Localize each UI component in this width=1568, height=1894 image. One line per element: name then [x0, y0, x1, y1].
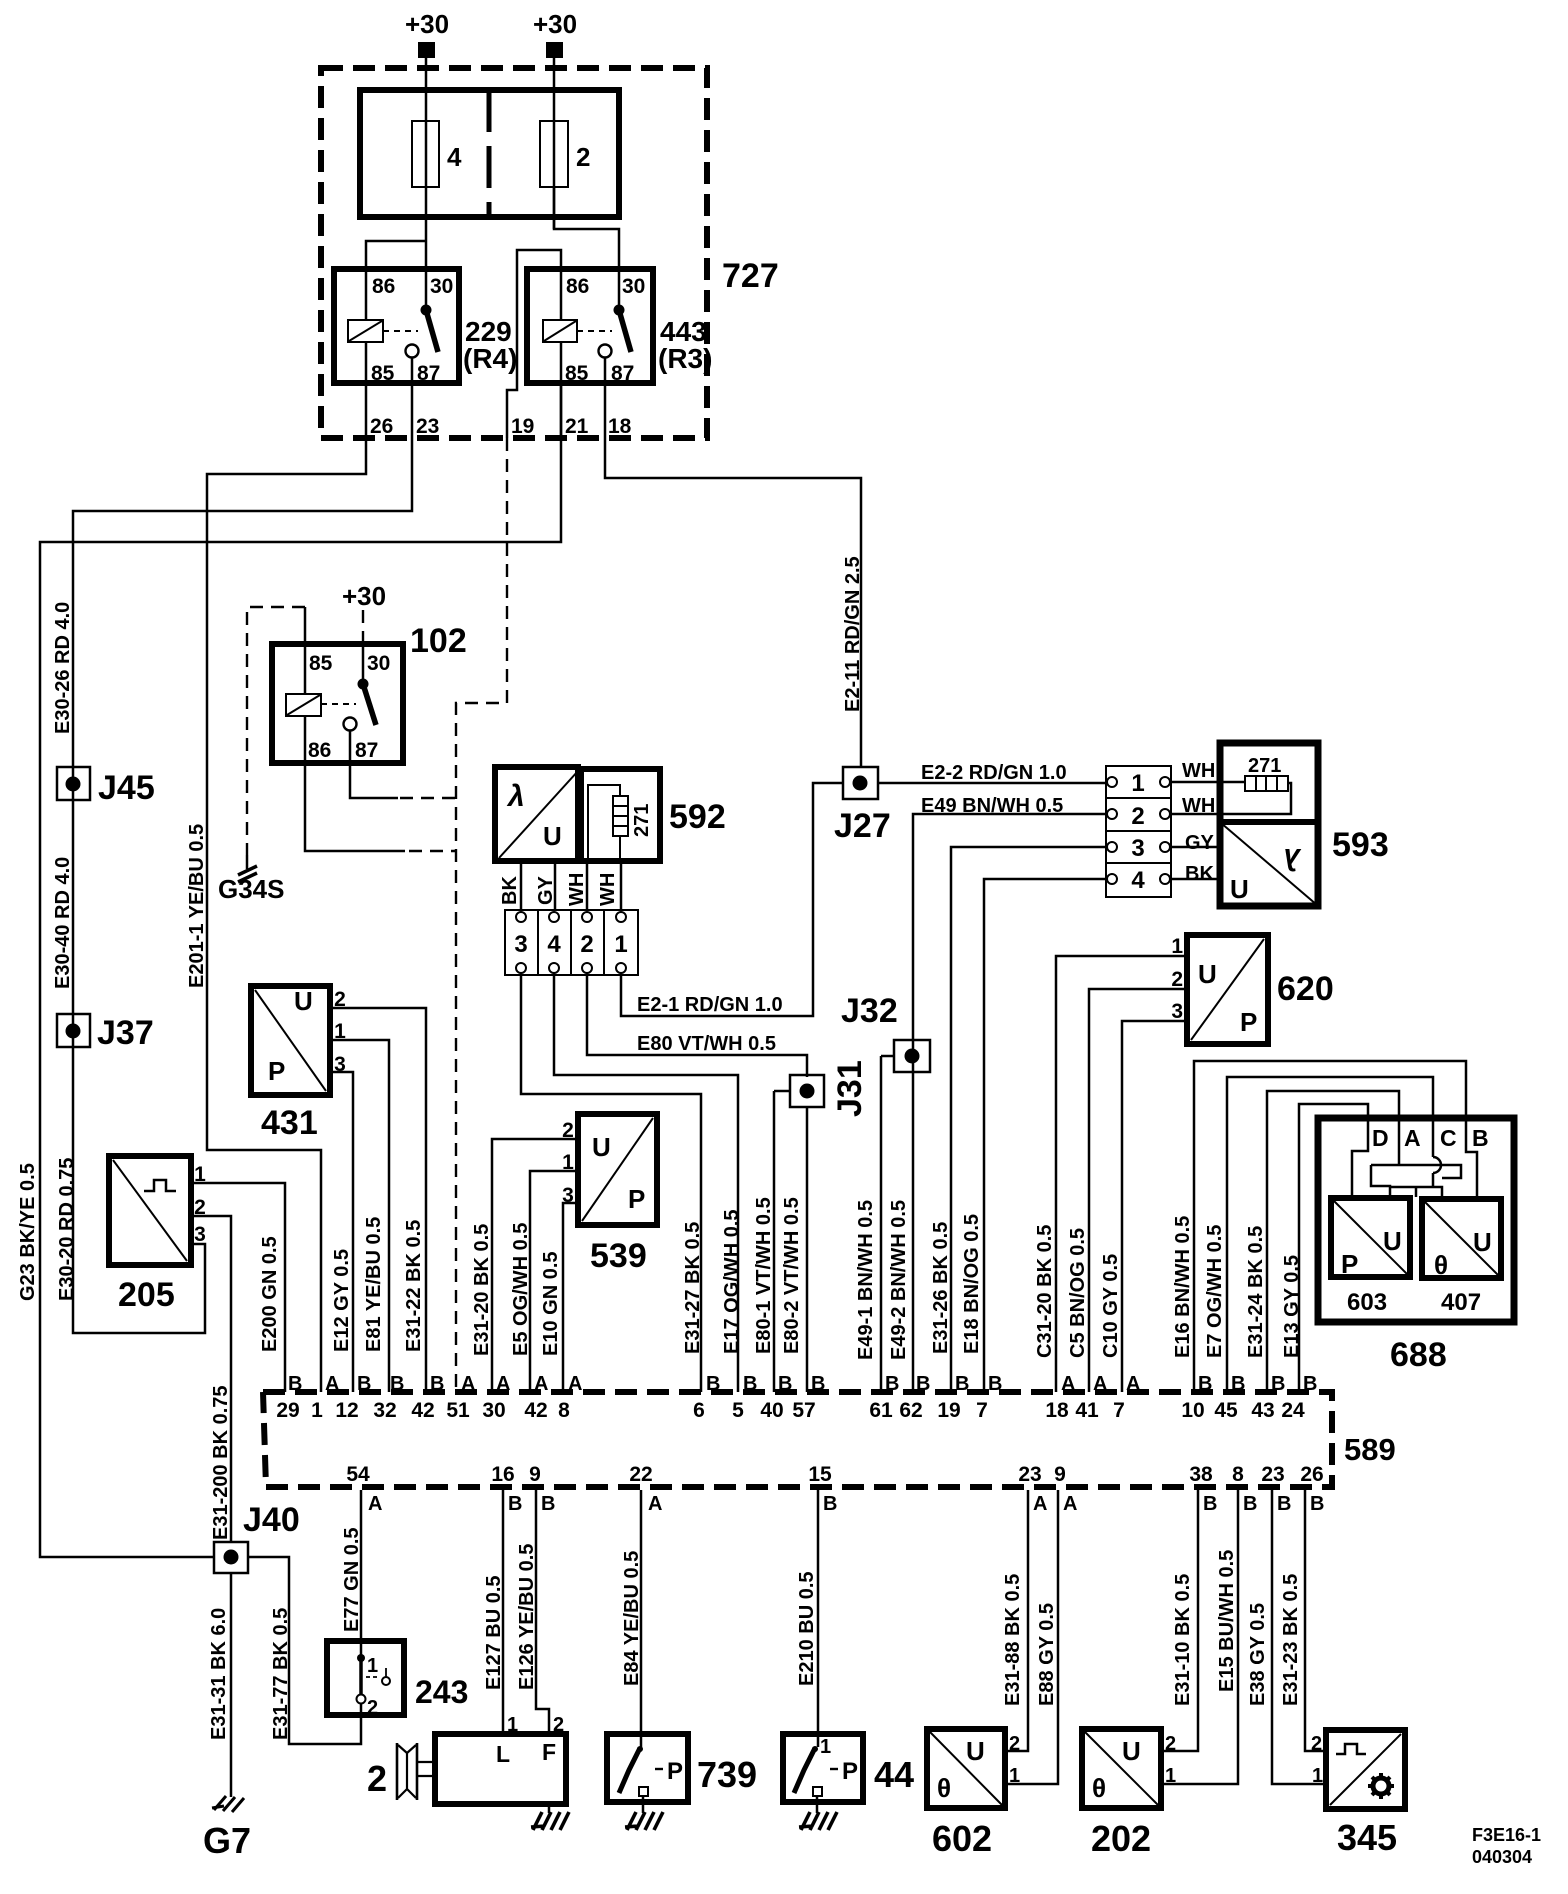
svg-text:1: 1 [311, 1399, 323, 1422]
label 688 [1390, 1336, 1447, 1374]
svg-text:A: A [461, 1373, 475, 1395]
connector 593 pins 1-4 [1106, 766, 1171, 897]
svg-text:539: 539 [590, 1237, 647, 1275]
label 102 [410, 622, 467, 660]
svg-text:C: C [1440, 1125, 1457, 1151]
svg-text:E80-1 VT/WH 0.5: E80-1 VT/WH 0.5 [753, 1197, 775, 1354]
wire E10 539 pin 3 to ECU pin 8 [563, 1203, 578, 1392]
svg-text:87: 87 [611, 362, 634, 385]
svg-text:(R3): (R3) [658, 343, 712, 374]
svg-text:+30: +30 [533, 9, 577, 39]
svg-text:727: 727 [722, 257, 779, 295]
relay 102 dashed enclosure [247, 607, 305, 855]
svg-text:589: 589 [1344, 1432, 1396, 1467]
svg-text:J32: J32 [841, 992, 898, 1030]
wire E80-1 J31 to ECU pin 40 [773, 1091, 776, 1392]
svg-text:E31-31 BK 6.0: E31-31 BK 6.0 [208, 1608, 230, 1740]
svg-text:B: B [955, 1373, 969, 1395]
label 205 [118, 1276, 175, 1314]
svg-text:(R4): (R4) [463, 343, 517, 374]
svg-text:1: 1 [507, 1714, 518, 1736]
wire E31-10 ECU pin 38 to sensor 202 pin 2 [1161, 1490, 1198, 1751]
svg-text:A: A [1126, 1373, 1140, 1395]
wire relay 229 coil 85 down to pin 26 [365, 342, 368, 438]
svg-text:B: B [288, 1373, 302, 1395]
svg-text:E31-10 BK 0.5: E31-10 BK 0.5 [1172, 1574, 1194, 1706]
label E84 YE/BU 0.5 [621, 1551, 643, 1686]
pressure switch 739 [607, 1734, 688, 1802]
wire E126 ECU pin 9 to horn F [536, 1490, 549, 1734]
wire E7 ECU pin 45 to 688 pin C [1227, 1077, 1433, 1392]
svg-text:E31-88 BK 0.5: E31-88 BK 0.5 [1002, 1574, 1024, 1706]
label E31-31 BK 6.0 [208, 1608, 230, 1740]
svg-text:271: 271 [1248, 755, 1281, 777]
wire E31-20 539 pin 2 to ECU pin 30 [492, 1139, 578, 1392]
svg-text:26: 26 [370, 415, 393, 438]
svg-text:E49 BN/WH 0.5: E49 BN/WH 0.5 [921, 795, 1063, 817]
label E30-26 RD 4.0 [52, 602, 74, 734]
svg-text:WH: WH [597, 873, 619, 906]
svg-text:E30-20 RD 0.75: E30-20 RD 0.75 [56, 1158, 78, 1301]
svg-text:D: D [1372, 1125, 1389, 1151]
svg-text:1: 1 [367, 1655, 378, 1677]
rpm sensor 205 box [109, 1156, 191, 1265]
label E31-20 BK 0.5 [471, 1224, 493, 1356]
relay 443 switch pin 30/87 [599, 305, 632, 358]
svg-text:E2-11 RD/GN 2.5: E2-11 RD/GN 2.5 [842, 556, 864, 712]
svg-text:32: 32 [373, 1399, 396, 1422]
label E5 OG/WH 0.5 [510, 1223, 532, 1356]
svg-text:A: A [1404, 1125, 1421, 1151]
wire relay 443 coil 86 feed from pin 19 [507, 250, 561, 438]
svg-text:E7 OG/WH 0.5: E7 OG/WH 0.5 [1204, 1225, 1226, 1358]
svg-text:U: U [592, 1132, 611, 1162]
svg-text:A: A [1061, 1373, 1075, 1395]
svg-text:A: A [1063, 1493, 1077, 1515]
592 heater compartment with resistor 271 [581, 769, 660, 861]
svg-text:23: 23 [416, 415, 439, 438]
svg-text:243: 243 [415, 1674, 468, 1710]
horn speaker symbol [397, 1743, 435, 1800]
svg-text:B: B [1303, 1373, 1317, 1395]
label 589 [1344, 1432, 1396, 1467]
svg-text:62: 62 [899, 1399, 922, 1422]
svg-text:603: 603 [1347, 1289, 1387, 1316]
svg-text:E10 GN 0.5: E10 GN 0.5 [540, 1251, 562, 1356]
wire relay 102 pin 85 [304, 607, 307, 694]
label 602 [932, 1818, 992, 1859]
svg-text:1: 1 [1312, 1765, 1323, 1787]
svg-text:GY: GY [535, 875, 557, 905]
svg-text:1: 1 [614, 931, 627, 958]
svg-text:E12 GY 0.5: E12 GY 0.5 [331, 1249, 353, 1352]
svg-text:30: 30 [430, 275, 453, 298]
svg-text:2: 2 [1009, 1733, 1020, 1755]
svg-text:E210 BU 0.5: E210 BU 0.5 [796, 1571, 818, 1686]
label E38 GY 0.5 [1247, 1603, 1269, 1706]
svg-text:22: 22 [629, 1463, 652, 1486]
688 pin letters D A C B [1372, 1125, 1489, 1151]
label 620 [1277, 970, 1334, 1008]
ECU top pin letters [288, 1373, 1317, 1395]
593 resistor 271 [1245, 755, 1288, 791]
svg-text:θ: θ [937, 1773, 951, 1803]
svg-text:B: B [1277, 1493, 1291, 1515]
svg-text:42: 42 [411, 1399, 434, 1422]
wires 592 to connector [521, 861, 621, 911]
sensor unit 688 box [1318, 1118, 1514, 1322]
wire E38 ECU pin 23 to solenoid 345 pin 1 [1272, 1490, 1326, 1784]
svg-text:18: 18 [1045, 1399, 1069, 1422]
fuse 4 [412, 121, 462, 187]
label E13 GY 0.5 [1281, 1255, 1303, 1358]
svg-text:A: A [496, 1373, 510, 1395]
svg-text:2: 2 [1165, 1733, 1176, 1755]
svg-text:1: 1 [820, 1736, 831, 1758]
svg-text:E49-1 BN/WH 0.5: E49-1 BN/WH 0.5 [855, 1200, 877, 1360]
heated sensor 593 box [1220, 743, 1318, 906]
label E31-27 BK 0.5 [682, 1222, 704, 1354]
label E80 VT/WH 0.5 [637, 1033, 776, 1055]
205 pin labels 1 2 3 [194, 1163, 206, 1246]
svg-text:B: B [823, 1493, 837, 1515]
label E31-200 BK 0.75 [210, 1385, 232, 1540]
+30 supply terminal (right) [533, 9, 577, 58]
wire E15 ECU pin 8 to sensor 202 pin 1 [1161, 1490, 1238, 1784]
svg-text:E2-2 RD/GN 1.0: E2-2 RD/GN 1.0 [921, 762, 1067, 784]
svg-text:23: 23 [1018, 1463, 1041, 1486]
label E210 BU 0.5 [796, 1571, 818, 1686]
svg-text:7: 7 [1113, 1399, 1125, 1422]
label E49-1 BN/WH 0.5 [855, 1200, 877, 1360]
svg-text:8: 8 [558, 1399, 570, 1422]
wire E84 ECU pin 22 to switch 739 [640, 1490, 643, 1747]
svg-text:4: 4 [447, 142, 462, 172]
wire +30 to fuse 2 [553, 58, 556, 229]
label E201-1 YE/BU 0.5 [186, 824, 208, 988]
ECU bottom pin letters [368, 1493, 1324, 1515]
svg-text:P: P [842, 1758, 858, 1785]
svg-text:E31-22 BK 0.5: E31-22 BK 0.5 [403, 1220, 425, 1352]
wire J40 to ground G7 [230, 1573, 233, 1797]
svg-text:J45: J45 [98, 769, 155, 807]
svg-text:E30-26 RD 4.0: E30-26 RD 4.0 [52, 602, 74, 734]
svg-text:G7: G7 [203, 1820, 251, 1861]
svg-text:P: P [628, 1184, 645, 1214]
boost valve 345 [1311, 1730, 1405, 1809]
svg-text:P: P [268, 1056, 285, 1086]
svg-text:C5 BN/OG 0.5: C5 BN/OG 0.5 [1067, 1228, 1089, 1358]
svg-text:B: B [1203, 1493, 1217, 1515]
svg-text:E31-200 BK 0.75: E31-200 BK 0.75 [210, 1385, 232, 1540]
svg-text:U: U [1122, 1736, 1141, 1766]
svg-text:29: 29 [276, 1399, 299, 1422]
wire fuse 2 to relay 443 pin 30 [554, 187, 619, 310]
label E31-23 BK 0.5 [1280, 1574, 1302, 1706]
label E2-2 RD/GN 1.0 [921, 762, 1067, 784]
wire E31-77 J40 to switch 243 pin 2 [248, 1557, 361, 1744]
svg-text:J37: J37 [97, 1014, 154, 1052]
svg-text:BK: BK [499, 876, 521, 905]
svg-text:61: 61 [869, 1399, 893, 1422]
svg-text:9: 9 [529, 1463, 541, 1486]
svg-text:44: 44 [874, 1754, 914, 1795]
label E31-22 BK 0.5 [403, 1220, 425, 1352]
label 431 [261, 1104, 318, 1142]
label E127 BU 0.5 [483, 1575, 505, 1690]
labels BK GY WH WH [499, 873, 619, 906]
ground below horn [531, 1804, 569, 1830]
svg-text:18: 18 [608, 415, 632, 438]
wire E200 205 pin 1 to ECU pin 29 [191, 1183, 285, 1392]
junction J37 [57, 1014, 154, 1052]
svg-text:E126 YE/BU 0.5: E126 YE/BU 0.5 [516, 1544, 538, 1690]
svg-text:4: 4 [547, 931, 561, 958]
svg-text:40: 40 [760, 1399, 783, 1422]
svg-text:271: 271 [631, 804, 653, 837]
label E80-1 VT/WH 0.5 [753, 1197, 775, 1354]
431 pin labels 2 1 3 [334, 988, 346, 1076]
svg-text:C10 GY 0.5: C10 GY 0.5 [1100, 1254, 1122, 1358]
wire E31-200 205 pin 2 to J40 [191, 1216, 231, 1542]
wire E49 to connector pin 2 and down to J32 [913, 814, 1111, 1392]
svg-text:E38 GY 0.5: E38 GY 0.5 [1247, 1603, 1269, 1706]
svg-text:E16 BN/WH 0.5: E16 BN/WH 0.5 [1172, 1216, 1194, 1358]
svg-text:2: 2 [553, 1714, 564, 1736]
svg-text:592: 592 [669, 798, 726, 836]
wire C31-20 620 pin 1 to ECU pin 18 [1056, 956, 1187, 1392]
label E7 OG/WH 0.5 [1204, 1225, 1226, 1358]
label 243 [415, 1674, 468, 1710]
svg-text:θ: θ [1092, 1773, 1106, 1803]
svg-text:E201-1 YE/BU 0.5: E201-1 YE/BU 0.5 [186, 824, 208, 988]
svg-text:A: A [648, 1493, 662, 1515]
svg-text:2: 2 [1311, 1733, 1322, 1755]
svg-text:B: B [1243, 1493, 1257, 1515]
svg-text:A: A [325, 1373, 339, 1395]
svg-text:30: 30 [622, 275, 645, 298]
svg-text:51: 51 [446, 1399, 470, 1422]
label E12 GY 0.5 [331, 1249, 353, 1352]
svg-text:57: 57 [792, 1399, 815, 1422]
svg-text:λ: λ [506, 780, 525, 813]
label E49-2 BN/WH 0.5 [888, 1200, 910, 1360]
wire E80-2 J31 to ECU pin 57 [806, 1107, 809, 1392]
label G23 BK/YE 0.5 [17, 1163, 39, 1301]
fuse 2 [540, 121, 590, 187]
svg-text:E84 YE/BU 0.5: E84 YE/BU 0.5 [621, 1551, 643, 1686]
junction J32 [841, 992, 930, 1072]
svg-text:B: B [811, 1373, 825, 1395]
svg-text:B: B [885, 1373, 899, 1395]
label 592 [669, 798, 726, 836]
svg-text:202: 202 [1091, 1818, 1151, 1859]
label 539 [590, 1237, 647, 1275]
svg-text:040304: 040304 [1472, 1847, 1532, 1867]
svg-text:WH: WH [566, 873, 588, 906]
svg-text:θ: θ [1434, 1250, 1448, 1280]
wire E210 ECU pin 15 to switch 44 [817, 1490, 820, 1747]
svg-text:620: 620 [1277, 970, 1334, 1008]
svg-text:B: B [1472, 1125, 1489, 1151]
svg-text:26: 26 [1300, 1463, 1323, 1486]
svg-text:407: 407 [1441, 1289, 1481, 1316]
svg-text:86: 86 [372, 275, 395, 298]
svg-text:85: 85 [309, 652, 333, 675]
svg-text:P: P [1341, 1249, 1358, 1279]
svg-text:E31-23 BK 0.5: E31-23 BK 0.5 [1280, 1574, 1302, 1706]
pressure sensor 603 [1331, 1198, 1410, 1316]
label 202 [1091, 1818, 1151, 1859]
svg-text:16: 16 [491, 1463, 514, 1486]
relay 102 switch [344, 646, 377, 731]
relay 102 coil [286, 694, 356, 716]
svg-text:E31-77 BK 0.5: E31-77 BK 0.5 [270, 1608, 292, 1740]
svg-text:P: P [1240, 1007, 1257, 1037]
wire C5 620 pin 2 to ECU pin 41 [1089, 989, 1187, 1392]
ground below 44 [799, 1796, 837, 1830]
svg-text:B: B [743, 1373, 757, 1395]
label C10 GY 0.5 [1100, 1254, 1122, 1358]
pressure sensor 431 box [251, 986, 330, 1095]
svg-text:G34S: G34S [218, 874, 285, 904]
svg-text:B: B [916, 1373, 930, 1395]
svg-text:87: 87 [417, 362, 440, 385]
svg-text:30: 30 [482, 1399, 505, 1422]
connector 592 pins 3 4 2 1 [505, 910, 638, 975]
drawing number F3E16-1 040304 [1472, 1825, 1541, 1867]
svg-text:41: 41 [1075, 1399, 1099, 1422]
727 pin numbers 26 23 19 21 18 [370, 415, 632, 438]
label E30-20 RD 0.75 [56, 1158, 78, 1301]
label 229 (R4) [463, 316, 517, 374]
svg-text:1: 1 [1165, 1765, 1176, 1787]
wire E31-24 ECU pin 43 to 688 pin A [1267, 1091, 1399, 1392]
wire relay 102 pin 87 [350, 731, 456, 798]
svg-text:B: B [988, 1373, 1002, 1395]
svg-text:U: U [1198, 959, 1217, 989]
svg-text:J31: J31 [831, 1060, 869, 1117]
label E16 BN/WH 0.5 [1172, 1216, 1194, 1358]
svg-text:BK: BK [1185, 863, 1214, 885]
svg-text:2: 2 [576, 142, 590, 172]
ground G7 [203, 1796, 251, 1861]
svg-text:E80 VT/WH 0.5: E80 VT/WH 0.5 [637, 1033, 776, 1055]
wire E31-26 connector pin 3 to ECU pin 19 [951, 847, 1106, 1392]
ECU 589 dashed box [263, 1392, 1332, 1487]
svg-text:E88 GY 0.5: E88 GY 0.5 [1036, 1603, 1058, 1706]
svg-text:45: 45 [1214, 1399, 1238, 1422]
label 593 [1332, 826, 1389, 864]
junction J40 [214, 1501, 300, 1573]
relay 443 coil [543, 320, 612, 342]
svg-text:E15 BU/WH 0.5: E15 BU/WH 0.5 [1216, 1550, 1238, 1692]
svg-text:688: 688 [1390, 1336, 1447, 1374]
fuse holder box 727 (dashed enclosure) [321, 68, 707, 438]
pressure switch 44 [783, 1734, 863, 1802]
svg-text:5: 5 [732, 1399, 744, 1422]
svg-text:86: 86 [566, 275, 589, 298]
wire E80 connector pin 2 to J31 [587, 973, 807, 1077]
wire E5 539 pin 1 to ECU pin 42 [530, 1171, 578, 1392]
svg-text:J40: J40 [243, 1501, 300, 1539]
wire E201-1 / E12 from 727 pin 26 to ECU pin 1 [207, 438, 366, 1392]
label E88 GY 0.5 [1036, 1603, 1058, 1706]
svg-text:9: 9 [1054, 1463, 1066, 1486]
svg-text:2: 2 [367, 1758, 387, 1799]
junction J45 [57, 767, 155, 807]
svg-text:E30-40 RD 4.0: E30-40 RD 4.0 [52, 857, 74, 989]
temp sensor 407 [1422, 1199, 1501, 1316]
label E17 OG/WH 0.5 [721, 1210, 743, 1355]
svg-text:E31-27 BK 0.5: E31-27 BK 0.5 [682, 1222, 704, 1354]
svg-text:43: 43 [1251, 1399, 1274, 1422]
svg-text:B: B [430, 1373, 444, 1395]
svg-text:10: 10 [1181, 1399, 1204, 1422]
svg-text:A: A [1033, 1493, 1047, 1515]
svg-text:E31-26 BK 0.5: E31-26 BK 0.5 [930, 1222, 952, 1354]
svg-text:345: 345 [1337, 1817, 1397, 1858]
svg-text:E49-2 BN/WH 0.5: E49-2 BN/WH 0.5 [888, 1200, 910, 1360]
label E31-88 BK 0.5 [1002, 1574, 1024, 1706]
593 sensor symbol [1221, 823, 1317, 905]
svg-text:24: 24 [1281, 1399, 1305, 1422]
svg-text:6: 6 [693, 1399, 705, 1422]
svg-text:19: 19 [511, 415, 534, 438]
svg-text:J27: J27 [834, 807, 891, 845]
wire E31-27 connector pin 3 to ECU pin 6 [521, 973, 701, 1392]
wire E77 ECU pin 54 to switch 243 pin 1 [360, 1490, 363, 1657]
svg-text:42: 42 [524, 1399, 547, 1422]
ECU bottom pin numbers [346, 1463, 1323, 1486]
svg-text:87: 87 [355, 739, 378, 762]
relay 102 box [272, 644, 403, 763]
svg-text:B: B [390, 1373, 404, 1395]
pressure sensor 620 box [1187, 935, 1268, 1044]
svg-text:E5 OG/WH 0.5: E5 OG/WH 0.5 [510, 1223, 532, 1356]
wire E17 connector pin 4 to ECU pin 5 [554, 973, 738, 1392]
620 pin labels 1 2 3 [1171, 935, 1183, 1023]
label E31-10 BK 0.5 [1172, 1574, 1194, 1706]
label E81 YE/BU 0.5 [363, 1217, 385, 1352]
svg-text:B: B [778, 1373, 792, 1395]
dashed wire 727 pin 19 to ECU pin 51 [456, 438, 507, 1392]
wire relay 443 contact 87 down to pin 18 / J27 [605, 358, 861, 768]
svg-text:4: 4 [1131, 867, 1145, 894]
svg-text:B: B [1271, 1373, 1285, 1395]
wire E88 ECU pin 9 to sensor 602 pin 1 [1005, 1490, 1058, 1784]
svg-text:3: 3 [1171, 1000, 1183, 1023]
svg-text:102: 102 [410, 622, 467, 660]
junction J31 [774, 1060, 869, 1117]
label 2 (horn) [367, 1758, 387, 1799]
svg-text:U: U [1473, 1227, 1492, 1257]
svg-text:2: 2 [1131, 803, 1144, 830]
label E2-11 RD/GN 2.5 [842, 556, 864, 712]
688 internal wiring [1352, 1125, 1477, 1199]
svg-text:B: B [541, 1493, 555, 1515]
relay 229 switch pin 30/87 [406, 305, 439, 358]
wire E18 connector pin 4 to ECU pin 7 [984, 879, 1106, 1392]
wire E31-23 ECU pin 26 to solenoid 345 pin 2 [1305, 1490, 1326, 1751]
label E2-1 RD/GN 1.0 [637, 994, 783, 1016]
label E31-24 BK 0.5 [1245, 1226, 1267, 1358]
svg-text:GY: GY [1185, 832, 1215, 854]
label E49 BN/WH 0.5 [921, 795, 1063, 817]
svg-text:85: 85 [565, 362, 589, 385]
wire E2-2 J27 to connector pin 1 [878, 782, 1111, 785]
svg-text:F3E16-1: F3E16-1 [1472, 1825, 1541, 1845]
